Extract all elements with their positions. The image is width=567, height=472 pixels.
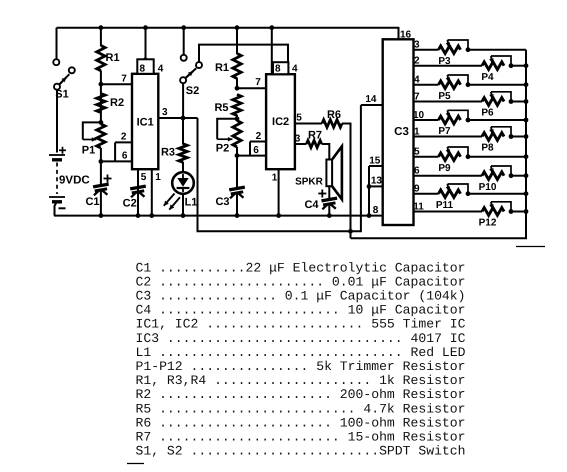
wire ground bottom rail [54,215,383,217]
svg-text:6: 6 [122,150,128,161]
svg-text:C4 ....................... 10: C4 ....................... 10 μF Capacit… [136,303,466,318]
node bus row pin 7 [524,99,529,104]
wire rail to S2 [183,28,185,58]
svg-text:P4: P4 [481,72,494,83]
svg-text:R2: R2 [110,97,124,109]
trimmer P1 [82,122,105,156]
resistor R3 [161,144,187,163]
pin IC3 13 wire [369,176,383,187]
svg-text:P8: P8 [481,143,494,154]
svg-text:13: 13 [371,176,383,187]
op-amp U IC3 4017 box [383,39,414,225]
wire IC1 pin2-6 bracket [114,142,116,161]
battery B1 9VDC [49,147,90,209]
wire battery to ground rail [55,202,57,216]
pin IC3 15 wire [369,156,383,167]
node C2 ground [136,213,141,218]
svg-text:P2: P2 [216,143,229,155]
wire C4 to ground [328,205,330,216]
scan mark bottom left [127,463,144,465]
svg-text:5: 5 [141,172,147,183]
svg-text:P12: P12 [479,218,497,229]
node P1-C1-pin6 [99,159,104,164]
pin IC2 1 wire [272,169,279,215]
svg-text:1: 1 [155,172,161,183]
wire R5 to P2 [236,115,238,120]
pin IC2 3 wire [295,133,307,144]
capacitor C2 [123,186,146,209]
node IC1 pin3 junction [181,116,186,121]
wire LED to ground [182,194,184,216]
svg-text:P10: P10 [479,182,497,193]
wire P1 to node [100,148,102,162]
pin IC2 5 wire [295,113,322,124]
trimmer P5 on IC3 pin 4 [414,75,527,102]
node R1-R2 pin7 [99,82,104,87]
wire S2 common to pin3 node [182,83,184,119]
wire pin3 node to R3 [182,118,184,145]
trimmer P9 on IC3 pin 5 [414,147,527,174]
resistor R2 [97,94,124,113]
svg-text:R5: R5 [214,102,228,114]
node clock line junction [348,229,353,234]
node C4 ground [327,213,332,218]
resistor R1 (IC2 section) [215,54,241,79]
svg-text:SPKR: SPKR [295,177,324,188]
node bus row pin 4 [524,82,529,87]
svg-text:8: 8 [373,205,379,216]
pin IC2 8-4 box [272,62,298,74]
svg-text:8: 8 [140,63,146,74]
svg-text:P9: P9 [438,163,451,174]
trimmer P11 on IC3 pin 9 [414,184,527,211]
parts list text [136,260,466,458]
node IC1 pin1 ground [149,213,154,218]
node pin13 junction [367,184,372,189]
trimmer P2 [216,119,241,155]
resistor R5 [214,95,241,116]
pin IC1 3 wire [158,107,197,118]
node LED ground [181,213,186,218]
wire P2 to node [236,147,238,157]
node bus row pin 5 [524,154,529,159]
node C3 ground [235,213,240,218]
wire C3 to ground [236,194,238,216]
pin IC1 1 wire [152,169,161,215]
trimmer P8 on IC3 pin 1 [414,126,527,153]
wire IC2 pin2-6 bracket [249,142,251,156]
node C1 ground [99,213,104,218]
svg-text:R6 ...................... 100-: R6 ...................... 100-ohm Resist… [136,415,466,430]
node bus row pin 9 [524,191,529,196]
svg-text:IC1, IC2 ....................: IC1, IC2 .................... 555 Timer … [136,317,466,332]
svg-text:C3: C3 [215,196,229,208]
wire rail to S1 [56,28,58,60]
wire C1 to ground [100,191,102,216]
pin IC3 14 wire [361,94,383,105]
svg-text:R1, R3,R4 ....................: R1, R3,R4 .................... 1k Resist… [136,373,466,388]
wire speaker to C4 [328,186,330,198]
svg-text:C1 ...........22 μF Electrolyt: C1 ...........22 μF Electrolytic Capacit… [136,260,466,275]
switch S1 [53,59,75,100]
svg-text:C3: C3 [394,126,409,138]
svg-text:S1, S2 .......................: S1, S2 ........................SPDT Swit… [136,444,466,459]
wire R1 to node [100,71,102,86]
wire IC3 pin16 drop [399,27,412,41]
svg-text:2: 2 [256,131,262,142]
op-amp U IC2 555 box [266,74,295,169]
trimmer P3 on IC3 pin 3 [414,40,527,67]
node IC1 pin8 top [143,57,148,62]
svg-text:4: 4 [414,75,420,86]
scan mark top right [516,246,545,248]
wire node to C1 [100,161,102,184]
svg-text:7: 7 [121,74,127,85]
node bus row pin 2 [524,63,529,68]
node top rail junction A [99,25,104,30]
svg-text:R1: R1 [106,52,120,64]
pin IC3 8 wire [373,205,379,216]
svg-text:7: 7 [414,91,420,102]
wire V+ top power rail [57,27,399,29]
svg-text:5: 5 [414,147,420,158]
svg-text:14: 14 [365,94,377,105]
svg-text:P6: P6 [481,108,494,119]
svg-text:IC2: IC2 [272,116,289,128]
svg-text:4: 4 [158,63,164,74]
wire S1 to battery [56,89,58,152]
capacitor C4 [304,190,337,211]
wire node to C3 [236,156,238,187]
svg-text:C2: C2 [123,197,137,209]
trimmer P12 on IC3 pin 11 [413,201,526,228]
node top rail junction C [181,25,186,30]
svg-text:1: 1 [414,126,420,137]
svg-text:R3: R3 [161,147,175,159]
op-amp U IC1 555 box [132,74,158,169]
pin IC2 6 [237,145,266,156]
svg-text:8: 8 [275,64,281,75]
wire R6 to bus [342,124,351,239]
node P2-C3-pin6 IC2 [235,153,240,158]
resistor R1 [97,46,120,71]
svg-text:IC1: IC1 [137,117,154,129]
node bus row pin 10 [524,118,529,123]
wire R2 to P1 node [100,84,102,123]
svg-text:P1: P1 [82,145,95,157]
svg-text:C3 ............... 0.1 μF Capa: C3 ............... 0.1 μF Capacitor (104… [136,289,466,304]
node R1b-R5 pin7 IC2 [235,86,240,91]
wire rail to R1b [236,28,238,54]
resistor R7 [306,130,322,148]
pin IC1 5 wire [138,169,147,215]
svg-text:R6: R6 [327,109,341,121]
wire IC1 pin3 to IC3 pin14 [198,105,361,231]
svg-text:S2: S2 [186,85,199,97]
svg-text:9: 9 [414,184,420,195]
svg-text:R2 ...................... 200-: R2 ...................... 200-ohm Resist… [136,387,466,402]
pin IC1 6 [101,150,132,161]
svg-text:L1: L1 [185,197,198,209]
speaker SPKR [295,146,342,199]
pin IC2 2 [250,131,266,142]
svg-text:6: 6 [253,145,259,156]
svg-text:P11: P11 [436,200,454,211]
wire S2 throw to IC2 pin4 [199,45,288,74]
svg-text:1: 1 [272,172,278,183]
node bus row pin 1 [524,134,529,139]
svg-text:7: 7 [255,77,261,88]
svg-text:P5: P5 [438,91,451,102]
svg-text:3: 3 [414,40,420,51]
svg-text:6: 6 [414,166,420,177]
svg-text:4: 4 [292,64,298,75]
svg-text:C2 ..................... 0.01: C2 ..................... 0.01 μF Capacit… [136,274,466,289]
trimmer P7 on IC3 pin 10 [413,110,526,137]
node top rail junction B [143,25,148,30]
svg-text:3: 3 [295,133,301,144]
node pin8 ground junction [367,213,372,218]
svg-text:5: 5 [296,113,302,124]
svg-text:R7: R7 [308,130,322,142]
svg-text:3: 3 [162,107,168,118]
svg-text:9VDC: 9VDC [59,174,90,186]
capacitor C3 [215,187,244,208]
node bus row pin 11 [524,209,529,214]
wire rail to R1 [100,28,102,46]
svg-text:2: 2 [121,132,127,143]
wire R7 to speaker [322,144,330,160]
svg-text:P1-P12 ............... 5k Trim: P1-P12 ............... 5k Trimmer Resist… [136,359,466,374]
resistor R6 [322,109,342,127]
node P2 top [235,116,240,121]
node top rail junction E [269,25,274,30]
pin IC2 7 wire [237,77,266,88]
wire pin15-13 bracket [368,166,370,216]
svg-text:R1: R1 [215,62,229,74]
node IC2 pin1 ground [276,213,281,218]
trimmer P10 on IC3 pin 6 [414,166,527,193]
svg-text:L1 ...........................: L1 ............................... Red L… [136,345,466,360]
node P1 top [99,120,104,125]
svg-text:10: 10 [413,110,425,121]
LED L1 [164,172,198,209]
svg-text:R5 ......................... 4: R5 ......................... 4.7k Resist… [136,401,466,416]
capacitor C1 [85,175,111,209]
wire IC1 pin 7 [101,74,132,85]
svg-text:C4: C4 [304,199,319,211]
node bus row pin 6 [524,173,529,178]
wire trimmer bus right [351,50,527,239]
wire rail to IC1 pin8 [145,28,147,60]
trimmer P4 on IC3 pin 2 [414,56,527,83]
trimmer P6 on IC3 pin 7 [414,91,527,118]
switch S2 [180,55,202,97]
wire rail to IC2 pin8 [271,28,273,74]
wire R1b to node [236,78,238,89]
wire R3 to LED [182,162,184,173]
svg-text:15: 15 [369,156,381,167]
svg-text:IC3 ..........................: IC3 .............................. 4017 … [136,331,466,346]
svg-text:11: 11 [413,201,424,212]
pin IC1 2 [115,132,132,143]
node top rail junction D [235,25,240,30]
svg-text:2: 2 [414,56,420,67]
svg-text:R7 ....................... 15-: R7 ....................... 15-ohm Resist… [136,430,466,445]
pin IC1 8-4 box [137,59,163,74]
svg-text:C1: C1 [85,196,99,208]
